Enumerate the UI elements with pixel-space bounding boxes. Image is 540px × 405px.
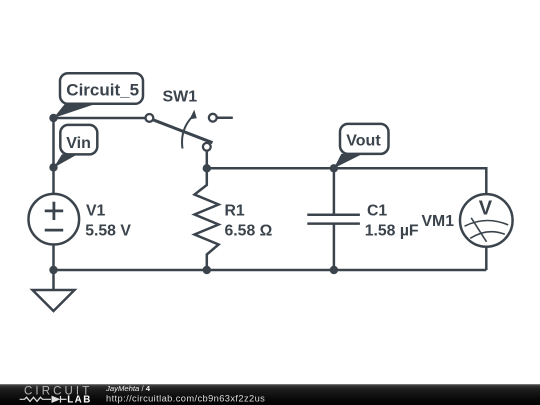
- VM1 meter scale arcs and needle: [465, 218, 509, 242]
- svg-text:SW1: SW1: [163, 89, 198, 106]
- wire SW1 pole down to R1 top node: [206, 151, 209, 169]
- voltage source V1: [29, 194, 80, 245]
- node flag Circuit_5: [54, 73, 144, 118]
- junction node Circuit_5: [49, 114, 57, 122]
- wire node Vin to V1 top: [52, 167, 55, 195]
- wire top rail to node Vout to VM1 top: [207, 168, 487, 194]
- node flag Vin: [54, 125, 98, 168]
- svg-text:V1: V1: [86, 203, 106, 220]
- ground: [33, 290, 75, 311]
- svg-text:VM1: VM1: [422, 213, 455, 230]
- CircuitLab logo resistor and diode glyph: [20, 396, 67, 403]
- wire V1 bottom to ground: [52, 244, 55, 290]
- svg-text:LAB: LAB: [67, 394, 92, 405]
- wire node Circuit_5 down to node Vin: [52, 118, 55, 167]
- SW1 actuation arrow: [182, 117, 192, 149]
- SW1 left throw terminal: [146, 114, 154, 122]
- resistor R1: [195, 168, 219, 270]
- junction C1 bottom: [330, 266, 338, 274]
- junction node Vin: [49, 163, 57, 171]
- svg-text:5.58 V: 5.58 V: [85, 222, 131, 239]
- junction V1 bottom rail: [49, 266, 57, 274]
- svg-text:1.58 µF: 1.58 µF: [365, 222, 419, 239]
- svg-text:V: V: [479, 197, 493, 219]
- SW1 blade: [153, 120, 213, 143]
- wire node Circuit_5 to SW1 left throw: [54, 117, 146, 120]
- svg-text:JayMehta / 4: JayMehta / 4: [105, 384, 151, 393]
- svg-text:R1: R1: [225, 203, 245, 220]
- capacitor C1: [307, 168, 360, 270]
- wire bottom rail: [54, 269, 487, 272]
- junction R1 top: [203, 164, 211, 172]
- svg-text:6.58 Ω: 6.58 Ω: [225, 222, 273, 239]
- SW1 right throw terminal: [209, 114, 217, 122]
- svg-text:http://circuitlab.com/cb9n63xf: http://circuitlab.com/cb9n63xf2z2us: [106, 393, 265, 403]
- svg-text:Vout: Vout: [346, 133, 381, 150]
- wire SW1 right throw stub: [217, 116, 233, 119]
- svg-text:Vin: Vin: [66, 135, 91, 152]
- svg-text:C1: C1: [367, 203, 387, 220]
- voltmeter VM1: [460, 194, 513, 247]
- node flag Vout: [334, 124, 389, 168]
- junction node Vout: [330, 164, 338, 172]
- junction R1 bottom: [203, 266, 211, 274]
- SW1 pole terminal: [203, 143, 211, 151]
- switch SW1: [146, 110, 217, 151]
- wire VM1 bottom to rail: [485, 247, 488, 270]
- svg-text:Circuit_5: Circuit_5: [66, 80, 139, 99]
